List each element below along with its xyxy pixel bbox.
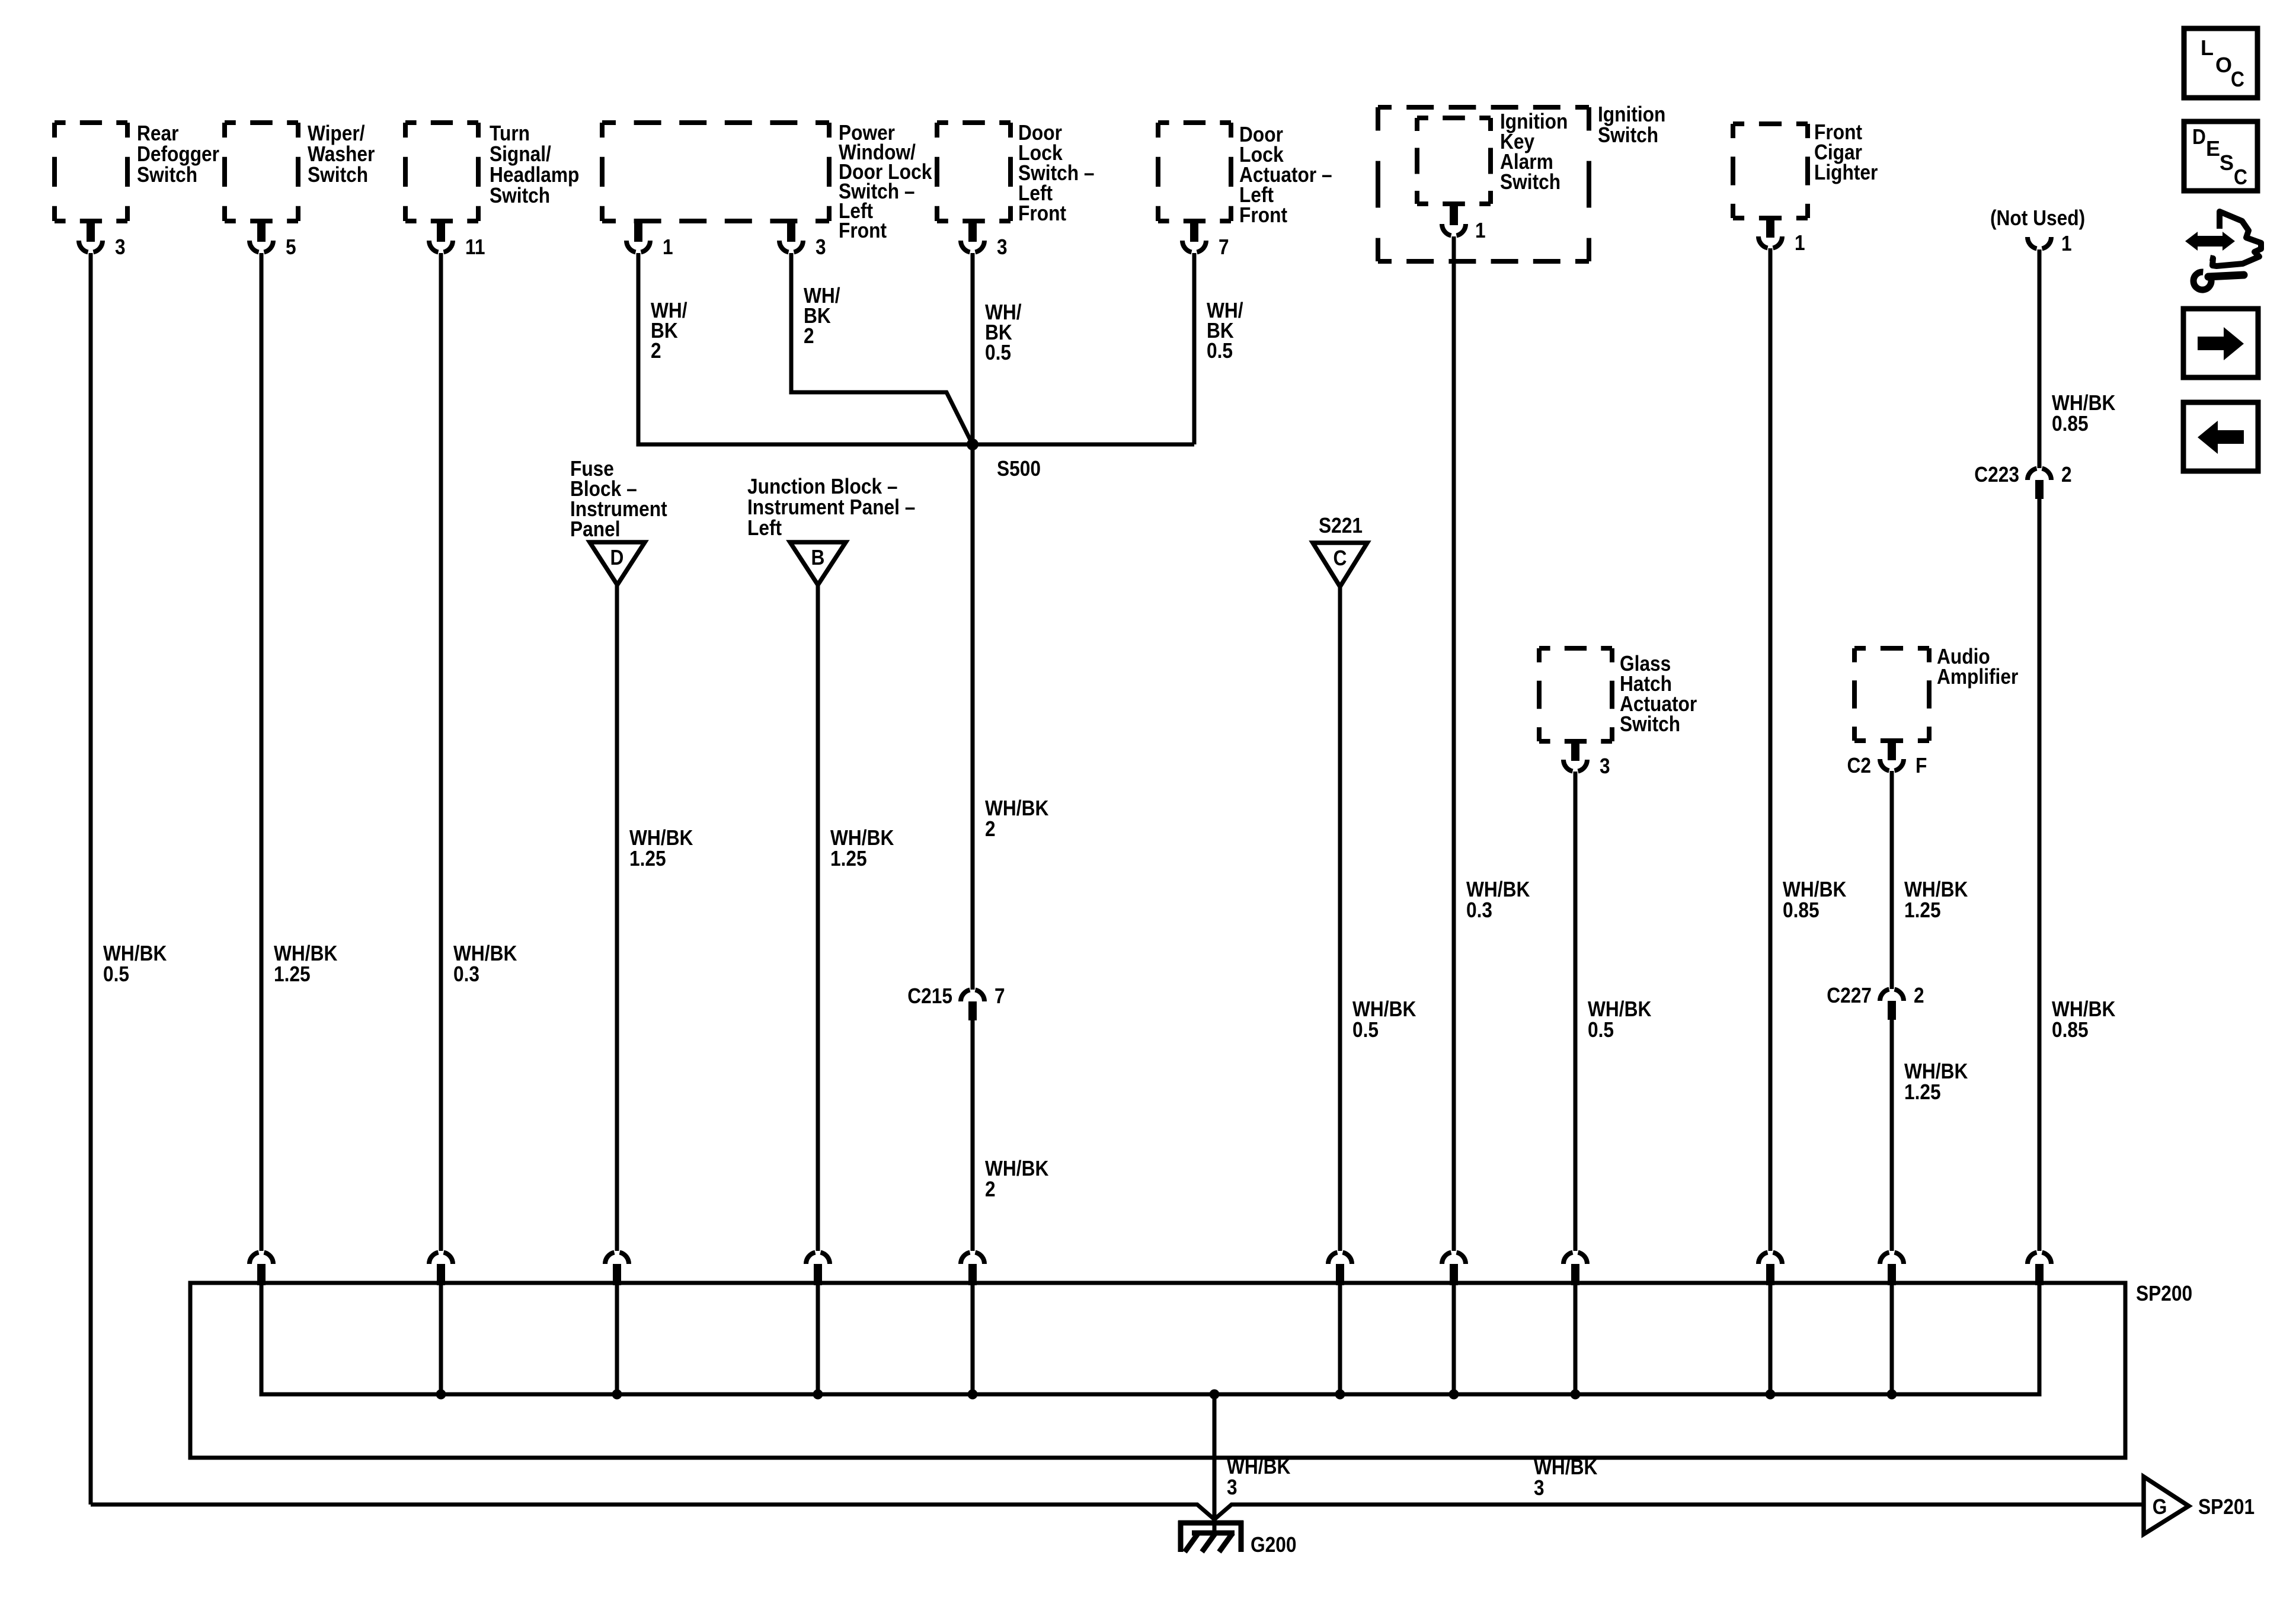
label: Door Lock Actuator - Left Front — [1239, 122, 1332, 227]
svg-text:1.25: 1.25 — [1904, 898, 1941, 922]
svg-text:Front: Front — [839, 218, 887, 242]
SP200 internal bus wire — [261, 1283, 2039, 1394]
wire label WH/BK 0.5 — [1207, 298, 1243, 363]
SP200 terminal bump connector (Not Used wire) — [2028, 1253, 2051, 1286]
inline connector C223 pin 2 — [1974, 462, 2071, 499]
wire label WH/BK 0.3 — [453, 941, 517, 986]
SP200 terminal bump connector (Glass Hatch wire) — [1563, 1253, 1587, 1395]
legend icon: wrench — [2193, 272, 2244, 290]
component: Ignition Switch (outer dashed box) — [1378, 107, 1589, 261]
SP200 terminal bump connector (Door Lock Switch wire) — [961, 1253, 984, 1395]
svg-text:Amplifier: Amplifier — [1937, 664, 2018, 689]
wire: Wiper/Washer Switch pin 5 down to SP200, WH/BK 1.25 — [260, 253, 264, 1251]
wire: Rear Defogger Switch pin 3 down the left side, WH/BK 0.5 — [89, 253, 93, 1505]
pin 7 connector of Door Lock Actuator — [1182, 221, 1229, 259]
label: Glass Hatch Actuator Switch — [1620, 651, 1697, 736]
wire label WH/BK 2 (below C215) — [985, 1156, 1048, 1201]
svg-text:C2: C2 — [1847, 753, 1872, 777]
wire: Door Lock Actuator pin 7 down to S500 run, WH/BK 0.5 — [1192, 253, 1197, 444]
off-page triangle G (SP201) — [2144, 1477, 2189, 1534]
svg-text:1.25: 1.25 — [629, 846, 666, 870]
svg-text:E: E — [2206, 136, 2220, 161]
svg-text:2: 2 — [985, 1177, 996, 1201]
legend icon: harness routing (double arrow, outline, wrench) — [2185, 212, 2261, 266]
svg-text:G200: G200 — [1251, 1532, 1297, 1557]
svg-text:0.5: 0.5 — [103, 962, 129, 986]
off-page triangle B (Junction Block - Instrument Panel - Left) — [790, 542, 846, 585]
wire: Audio Amplifier pin F down through C227 to SP200, WH/BK 1.25 — [1890, 771, 1894, 1251]
splice pack SP200 outline box — [190, 1283, 2125, 1458]
svg-text:2: 2 — [651, 338, 661, 363]
svg-text:(Not Used): (Not Used) — [1990, 206, 2085, 230]
component: Glass Hatch Actuator Switch (dashed box) — [1539, 648, 1612, 741]
legend icon: left arrow box — [2183, 402, 2258, 471]
wire: SP200 bus to ground G200, WH/BK 3 — [1213, 1394, 1217, 1535]
pin 1 connector of Front Cigar Lighter — [1758, 218, 1805, 255]
wire label WH/BK 0.5 — [1588, 997, 1651, 1042]
SP200 terminal bump connector (Ignition wire) — [1442, 1253, 1466, 1395]
svg-text:0.85: 0.85 — [1783, 898, 1819, 922]
component: Turn Signal/Headlamp Switch (dashed box) — [405, 123, 478, 221]
svg-text:C: C — [2234, 165, 2247, 189]
pin 1 connector (Not Used) — [2028, 231, 2072, 255]
svg-text:SP201: SP201 — [2198, 1494, 2255, 1519]
wire label WH/BK 1.25 (below C227) — [1904, 1059, 1968, 1104]
svg-text:3: 3 — [997, 235, 1008, 259]
label: S500 — [997, 456, 1041, 481]
component: Rear Defogger Switch (dashed box) — [55, 123, 127, 221]
svg-text:S500: S500 — [997, 456, 1041, 481]
svg-text:3: 3 — [1227, 1475, 1237, 1499]
svg-text:G: G — [2153, 1494, 2167, 1519]
svg-text:Switch: Switch — [1500, 169, 1560, 194]
svg-text:S: S — [2220, 151, 2234, 175]
wire label WH/BK 3 (bottom run) — [1534, 1455, 1597, 1500]
SP200 terminal bump connector (triangle D wire) — [605, 1253, 629, 1395]
label: Junction Block - Instrument Panel - Left — [747, 474, 915, 540]
label: Door Lock Switch - Left Front — [1018, 120, 1095, 225]
wire: Front Cigar Lighter pin 1 down to SP200, WH/BK 0.85 — [1769, 248, 1773, 1251]
pin 3 connector of Power Window/Door Lock Switch — [779, 221, 826, 259]
component: Ignition Key Alarm Switch (inner dashed box) — [1417, 118, 1491, 204]
svg-text:0.85: 0.85 — [2052, 1017, 2089, 1042]
svg-text:0.85: 0.85 — [2052, 411, 2089, 436]
svg-text:3: 3 — [816, 235, 826, 259]
pin 3 connector of Rear Defogger Switch — [79, 221, 126, 259]
label: S221 — [1319, 513, 1363, 537]
off-page triangle C (splice S221) — [1313, 543, 1367, 587]
label: SP200 — [2136, 1281, 2192, 1305]
svg-text:Switch: Switch — [490, 183, 550, 207]
wire: Door Lock Switch pin 3 down through S500 and C215 to SP200 — [971, 253, 975, 1251]
pin 11 connector of Turn Signal/Headlamp Switch — [429, 221, 485, 259]
svg-text:C227: C227 — [1827, 983, 1872, 1007]
label: G200 — [1251, 1532, 1297, 1557]
SP200 bus junction dot (triangle D) — [612, 1390, 622, 1400]
svg-text:5: 5 — [286, 235, 296, 259]
svg-text:Switch: Switch — [137, 162, 197, 187]
label: Front Cigar Lighter — [1814, 120, 1878, 184]
svg-text:Front: Front — [1239, 203, 1287, 227]
label: Audio Amplifier — [1937, 644, 2018, 689]
legend icon: DESC box — [2184, 121, 2257, 191]
SP200 bus junction dot (Door Lock Switch) — [968, 1390, 978, 1400]
wire label WH/BK 2 (pin 3) — [804, 283, 840, 348]
wire label WH/BK 3 (ground drop) — [1227, 1454, 1290, 1499]
svg-text:Left: Left — [747, 516, 782, 540]
wire: Turn Signal/Headlamp Switch pin 11 down to SP200, WH/BK 0.3 — [439, 253, 443, 1251]
svg-text:L: L — [2201, 36, 2214, 60]
label: Power Window/Door Lock Switch - Left Front — [839, 120, 932, 242]
svg-text:2: 2 — [804, 324, 814, 348]
wire: Glass Hatch Actuator Switch pin 3 down to SP200, WH/BK 0.5 — [1574, 772, 1578, 1251]
svg-text:C223: C223 — [1974, 462, 2019, 486]
component: Wiper/Washer Switch (dashed box) — [225, 123, 298, 221]
wire label WH/BK 0.5 — [103, 941, 167, 986]
svg-text:2: 2 — [985, 817, 996, 841]
pin 1 connector of Ignition Key Alarm Switch — [1442, 204, 1486, 242]
off-page triangle D (Fuse Block - Instrument Panel) — [590, 542, 645, 585]
wire: bottom ground run to SP201, WH/BK 3 — [91, 1505, 2144, 1519]
SP200 bus junction dot (Turn Signal) — [436, 1390, 446, 1400]
svg-text:2: 2 — [2061, 462, 2072, 486]
wire label WH/BK 0.5 — [1352, 997, 1416, 1042]
wire label WH/BK 0.5 — [985, 300, 1022, 364]
svg-text:0.5: 0.5 — [1207, 338, 1233, 363]
SP200 terminal bump connector (Audio Amplifier wire) — [1880, 1253, 1904, 1395]
ground G200 symbol — [1178, 1521, 1243, 1552]
label: Rear Defogger Switch — [137, 121, 219, 187]
svg-text:1: 1 — [2061, 231, 2072, 255]
legend icon: right arrow box — [2183, 309, 2258, 377]
svg-text:C: C — [1334, 546, 1347, 570]
svg-text:C: C — [2231, 67, 2244, 91]
wire label WH/BK 0.85 — [1783, 877, 1846, 922]
svg-text:1: 1 — [1795, 231, 1805, 255]
SP200 terminal bump connector (Turn Signal wire) — [429, 1253, 453, 1395]
wire: triangle D down to SP200, WH/BK 1.25 — [615, 585, 619, 1251]
svg-text:Switch: Switch — [308, 162, 368, 187]
label: Turn Signal/Headlamp Switch — [490, 121, 579, 207]
label: Fuse Block - Instrument Panel — [570, 456, 667, 541]
SP200 terminal bump connector (Cigar Lighter wire) — [1758, 1253, 1782, 1395]
SP200 bus junction dot (Audio Amplifier) — [1887, 1390, 1897, 1400]
svg-text:3: 3 — [1600, 754, 1610, 778]
SP200 terminal bump connector (triangle C wire) — [1328, 1253, 1352, 1395]
SP200 bus junction dot (Cigar Lighter) — [1766, 1390, 1776, 1400]
svg-text:Lighter: Lighter — [1814, 160, 1878, 184]
svg-text:3: 3 — [115, 235, 126, 259]
svg-text:3: 3 — [1534, 1475, 1544, 1500]
svg-text:Switch: Switch — [1620, 712, 1680, 736]
pin 5 connector of Wiper/Washer Switch — [250, 221, 296, 259]
label: (Not Used) — [1990, 206, 2085, 230]
wire: Ignition Key Alarm Switch pin 1 down to SP200, WH/BK 0.3 — [1452, 236, 1456, 1251]
svg-text:0.5: 0.5 — [1588, 1017, 1614, 1042]
svg-text:1.25: 1.25 — [274, 962, 311, 986]
inline connector C227 pin 2 — [1827, 983, 1924, 1020]
pin 3 connector of Door Lock Switch — [961, 221, 1008, 259]
svg-text:O: O — [2215, 53, 2232, 77]
svg-text:1: 1 — [663, 235, 673, 259]
svg-text:D: D — [2192, 124, 2206, 149]
wire: Power Window switch pin 3 jog to S500, WH/BK 2 — [791, 253, 973, 444]
SP200 terminal bump connector (triangle B wire) — [806, 1253, 830, 1395]
wire label WH/BK 0.3 — [1466, 877, 1530, 922]
SP200 bus junction dot (ground drop) — [1210, 1390, 1220, 1400]
svg-text:Front: Front — [1018, 201, 1066, 225]
svg-text:1.25: 1.25 — [1904, 1080, 1941, 1104]
legend icon: LOC box — [2184, 28, 2257, 98]
svg-text:0.5: 0.5 — [1352, 1017, 1379, 1042]
label: Ignition Key Alarm Switch — [1500, 109, 1568, 194]
component: Audio Amplifier (dashed box) — [1854, 648, 1929, 741]
connector C2 pin F of Audio Amplifier — [1847, 741, 1927, 777]
SP200 bus junction dot (triangle C) — [1335, 1390, 1345, 1400]
pin 3 connector of Glass Hatch Actuator Switch — [1563, 741, 1610, 778]
pin 1 connector of Power Window/Door Lock Switch — [626, 221, 673, 259]
svg-text:0.5: 0.5 — [985, 340, 1011, 364]
label: SP201 — [2198, 1494, 2255, 1519]
wire label WH/BK 2 (above C215) — [985, 796, 1048, 841]
wire label WH/BK 1.25 — [830, 825, 894, 870]
svg-text:C215: C215 — [907, 984, 952, 1008]
svg-text:D: D — [610, 545, 624, 569]
splice S500 junction dot — [967, 438, 978, 450]
svg-text:7: 7 — [994, 984, 1005, 1008]
svg-text:11: 11 — [465, 235, 485, 259]
svg-text:Switch: Switch — [1598, 123, 1658, 147]
SP200 bus junction dot (Glass Hatch) — [1571, 1390, 1581, 1400]
wire: Power Window switch pin 1 down and right to S500, WH/BK 2 — [638, 253, 1194, 444]
svg-text:2: 2 — [1914, 983, 1924, 1007]
svg-text:S221: S221 — [1319, 513, 1363, 537]
svg-text:1: 1 — [1475, 218, 1486, 242]
svg-text:F: F — [1916, 753, 1927, 777]
svg-text:Panel: Panel — [570, 517, 621, 541]
svg-text:1.25: 1.25 — [830, 846, 867, 870]
wire: triangle C (S221) down to SP200, WH/BK 0.5 — [1338, 587, 1342, 1251]
component: Power Window/Door Lock Switch - Left Front (wide dashed box) — [602, 123, 829, 221]
svg-text:B: B — [811, 545, 825, 569]
wire label WH/BK 2 (pin 1) — [651, 298, 687, 363]
component: Door Lock Actuator - Left Front (dashed box) — [1158, 123, 1231, 221]
svg-text:0.3: 0.3 — [1466, 898, 1492, 922]
label: Wiper/Washer Switch — [308, 121, 375, 187]
inline connector C215 pin 7 — [907, 984, 1005, 1020]
component: Door Lock Switch - Left Front (dashed box) — [937, 123, 1011, 221]
SP200 bus junction dot (Ignition) — [1449, 1390, 1459, 1400]
wire label WH/BK 1.25 — [274, 941, 337, 986]
wire label WH/BK 0.85 (above C223) — [2052, 391, 2115, 436]
wire label WH/BK 0.85 (below C223) — [2052, 997, 2115, 1042]
wire: triangle B down to SP200, WH/BK 1.25 — [816, 585, 820, 1251]
wire label WH/BK 1.25 (above C227) — [1904, 877, 1968, 922]
svg-text:7: 7 — [1219, 235, 1229, 259]
component: Front Cigar Lighter (dashed box) — [1733, 124, 1808, 218]
SP200 bus junction dot (triangle B) — [813, 1390, 823, 1400]
svg-text:0.3: 0.3 — [453, 962, 479, 986]
wire label WH/BK 1.25 — [629, 825, 693, 870]
wire: (Not Used) pin 1 down through C223 to SP200, WH/BK 0.85 — [2038, 249, 2042, 1251]
label: Ignition Switch — [1598, 102, 1665, 147]
SP200 terminal bump connector (Wiper/Washer wire) — [250, 1253, 273, 1286]
svg-text:SP200: SP200 — [2136, 1281, 2192, 1305]
